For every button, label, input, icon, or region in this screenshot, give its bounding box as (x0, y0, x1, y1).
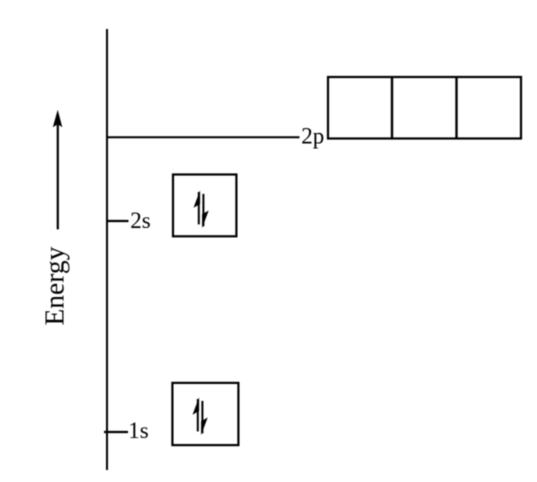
energy direction arrow shaft (57, 123, 59, 229)
2p energy level line (107, 136, 300, 138)
2p box divider 1 (391, 77, 393, 139)
svg-text:1s: 1s (128, 418, 149, 443)
svg-text:2s: 2s (130, 208, 151, 233)
1s orbital box (172, 383, 238, 445)
2p orbital boxes (three empty boxes) (328, 77, 521, 139)
2p box divider 2 (455, 77, 457, 139)
2s orbital box (173, 175, 236, 237)
svg-text:2p: 2p (301, 124, 324, 149)
2s tick mark (106, 220, 129, 222)
1s tick mark (104, 431, 128, 433)
svg-text:Energy: Energy (39, 246, 70, 325)
2s paired electrons (194, 190, 209, 228)
energy direction arrow head (53, 110, 63, 127)
1s paired electrons (193, 397, 208, 435)
energy axis (vertical line) (106, 29, 108, 470)
